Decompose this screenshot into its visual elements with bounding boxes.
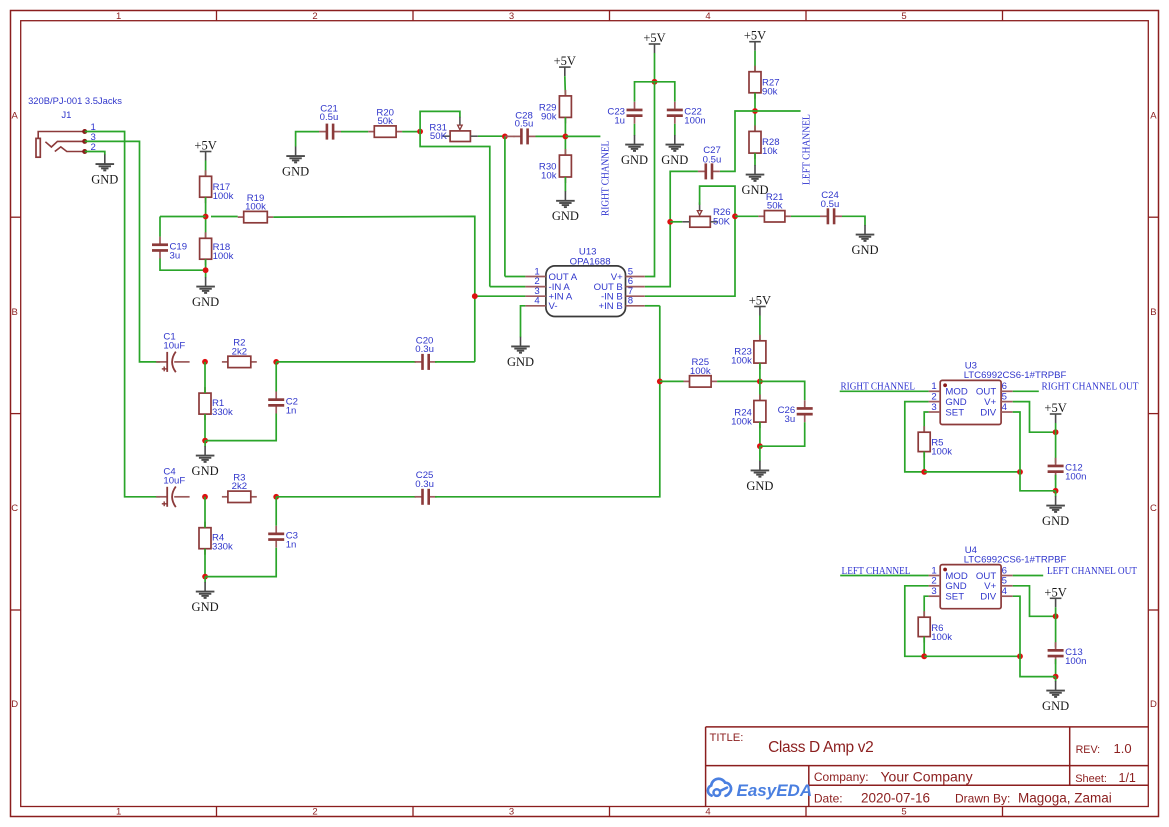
wire xyxy=(85,132,160,497)
wire xyxy=(654,53,656,82)
svg-text:1: 1 xyxy=(116,11,121,22)
junction xyxy=(563,134,569,140)
capacitor C27 xyxy=(698,145,721,180)
svg-text:330k: 330k xyxy=(212,407,233,418)
svg-text:GND: GND xyxy=(282,165,309,179)
svg-text:3: 3 xyxy=(509,807,514,818)
junction xyxy=(1053,488,1059,494)
wire xyxy=(536,135,566,137)
wire xyxy=(1055,491,1057,497)
svg-text:GND: GND xyxy=(91,173,118,187)
svg-text:100k: 100k xyxy=(213,191,234,202)
wire xyxy=(924,412,928,432)
capacitor C4 (polarized) xyxy=(156,467,189,508)
svg-text:RIGHT CHANNEL OUT: RIGHT CHANNEL OUT xyxy=(1042,382,1140,393)
EasyEDA logo xyxy=(708,779,812,800)
junction xyxy=(652,79,658,85)
IC U3 LTC6992CS6-1#TRPBF xyxy=(929,361,1067,425)
wire xyxy=(1055,607,1057,616)
wire xyxy=(205,161,207,177)
svg-text:+5V: +5V xyxy=(194,139,216,153)
wire xyxy=(490,286,526,288)
svg-text:320B/PJ-001 3.5Jacks: 320B/PJ-001 3.5Jacks xyxy=(28,95,122,106)
capacitor C25 xyxy=(415,470,437,505)
net label LEFT CHANNEL (vertical) xyxy=(802,114,813,185)
wire xyxy=(420,111,460,131)
wire xyxy=(435,361,475,363)
wire xyxy=(275,362,277,392)
op-amp U13 OPA1688 xyxy=(525,247,644,317)
svg-text:Class D Amp v2: Class D Amp v2 xyxy=(768,739,873,756)
resistor R28 xyxy=(749,125,780,159)
svg-text:100k: 100k xyxy=(931,447,952,458)
svg-text:10uF: 10uF xyxy=(163,476,185,487)
svg-text:2k2: 2k2 xyxy=(232,481,247,492)
svg-text:3u: 3u xyxy=(170,250,181,261)
svg-text:D: D xyxy=(1150,699,1157,710)
svg-text:10k: 10k xyxy=(762,146,778,157)
svg-text:V-: V- xyxy=(549,301,558,312)
capacitor C21 xyxy=(319,104,341,140)
svg-text:GND: GND xyxy=(851,243,878,257)
junction xyxy=(1053,674,1059,680)
svg-text:+5V: +5V xyxy=(744,29,766,43)
wire xyxy=(204,362,206,393)
ground (C13) xyxy=(1042,681,1069,713)
ground (C21) xyxy=(282,147,309,179)
wire xyxy=(759,316,761,341)
wire xyxy=(923,637,925,657)
wire xyxy=(564,76,567,96)
svg-text:D: D xyxy=(11,699,18,710)
svg-text:EasyEDA: EasyEDA xyxy=(737,781,813,800)
svg-text:3: 3 xyxy=(509,11,514,22)
resistor R23 xyxy=(731,335,766,369)
junction xyxy=(203,214,209,220)
svg-text:4: 4 xyxy=(1002,402,1008,413)
junction xyxy=(202,494,208,500)
svg-text:B: B xyxy=(12,307,18,318)
wire xyxy=(205,414,276,441)
wire xyxy=(924,655,1020,657)
wire xyxy=(924,471,1020,473)
net label RIGHT CHANNEL OUT xyxy=(1042,382,1140,393)
svg-text:SET: SET xyxy=(945,592,964,603)
wire xyxy=(204,497,206,528)
wire xyxy=(1013,575,1043,577)
junction xyxy=(202,438,208,444)
svg-text:0.5u: 0.5u xyxy=(320,112,339,123)
svg-text:GND: GND xyxy=(552,209,579,223)
wire xyxy=(1055,659,1057,676)
wire xyxy=(204,549,206,577)
resistor R30 xyxy=(539,149,572,183)
resistor R6 xyxy=(918,611,952,643)
wire xyxy=(645,82,655,277)
wire xyxy=(635,82,655,102)
wire xyxy=(1055,432,1057,463)
net label RIGHT CHANNEL (vertical) xyxy=(600,141,611,216)
svg-text:100n: 100n xyxy=(684,116,705,127)
wire xyxy=(670,221,682,223)
wire xyxy=(923,452,925,472)
svg-text:+5V: +5V xyxy=(643,31,665,45)
wire xyxy=(759,363,761,400)
svg-text:GND: GND xyxy=(746,479,773,493)
svg-text:4: 4 xyxy=(705,11,710,22)
svg-text:5: 5 xyxy=(1002,392,1007,403)
svg-text:A: A xyxy=(12,111,19,122)
junction xyxy=(732,213,738,219)
resistor R25 xyxy=(684,357,718,387)
resistor R2 xyxy=(222,338,257,368)
wire xyxy=(521,306,526,338)
svg-text:SET: SET xyxy=(945,407,964,418)
wire xyxy=(1020,472,1056,491)
+5V power flag (C23/C22) xyxy=(643,31,665,53)
wire xyxy=(85,141,160,362)
wire xyxy=(204,441,206,447)
wire xyxy=(276,361,416,363)
svg-text:0.3u: 0.3u xyxy=(415,344,434,355)
wire xyxy=(160,216,206,218)
resistor R27 xyxy=(749,66,780,99)
junction xyxy=(757,379,763,385)
svg-text:1n: 1n xyxy=(286,405,297,416)
svg-text:10k: 10k xyxy=(541,171,557,182)
wire xyxy=(420,132,490,287)
svg-text:100k: 100k xyxy=(213,251,234,262)
wire xyxy=(655,82,675,102)
svg-text:GND: GND xyxy=(1042,699,1069,713)
svg-text:10uF: 10uF xyxy=(163,341,185,352)
ground (J1 sleeve) xyxy=(91,155,118,187)
svg-text:1: 1 xyxy=(116,807,121,818)
ground (C23) xyxy=(621,135,648,167)
ground (R1/C2) xyxy=(192,446,219,478)
wire xyxy=(276,496,416,498)
ground (C24) xyxy=(851,225,878,257)
wire xyxy=(720,111,755,171)
ground (U13 V-) xyxy=(507,337,534,369)
connector J1 (320B/PJ-001 3.5mm jack) xyxy=(28,95,122,157)
svg-text:50k: 50k xyxy=(767,201,783,212)
svg-text:3u: 3u xyxy=(785,414,796,425)
wire xyxy=(760,422,805,446)
svg-text:2: 2 xyxy=(931,576,936,587)
svg-text:Drawn By:: Drawn By: xyxy=(955,792,1010,806)
wire xyxy=(717,380,760,382)
+5V power flag (R17) xyxy=(194,139,216,161)
svg-text:50K: 50K xyxy=(713,217,731,228)
wire xyxy=(1055,677,1057,682)
svg-text:LEFT CHANNEL: LEFT CHANNEL xyxy=(802,114,813,185)
ground (C12) xyxy=(1042,496,1069,528)
svg-text:1u: 1u xyxy=(614,116,625,127)
resistor R4 xyxy=(199,522,233,555)
junction xyxy=(1017,653,1023,659)
wire xyxy=(645,186,735,296)
resistor R3 xyxy=(222,473,257,503)
pin dot J1.2 xyxy=(82,149,87,154)
junction xyxy=(502,134,508,140)
junction xyxy=(657,379,663,385)
svg-text:TITLE:: TITLE: xyxy=(710,732,744,744)
svg-text:GND: GND xyxy=(192,600,219,614)
wire xyxy=(1013,596,1020,656)
junction xyxy=(1053,429,1059,435)
svg-text:100k: 100k xyxy=(245,202,266,213)
resistor R21 xyxy=(758,192,791,222)
svg-text:Sheet:: Sheet: xyxy=(1075,773,1107,785)
svg-text:90k: 90k xyxy=(762,86,778,97)
wire xyxy=(1013,390,1039,392)
svg-text:Magoga, Zamai: Magoga, Zamai xyxy=(1018,791,1112,806)
svg-text:90k: 90k xyxy=(541,112,557,123)
svg-text:+IN B: +IN B xyxy=(599,301,623,312)
resistor R1 xyxy=(199,387,233,420)
+5V power flag (R29) xyxy=(554,54,576,76)
IC U4 LTC6992CS6-1#TRPBF xyxy=(929,545,1067,609)
wire xyxy=(660,380,684,382)
capacitor C20 xyxy=(415,335,437,370)
wire xyxy=(759,422,761,446)
wire xyxy=(1013,412,1020,472)
svg-text:A: A xyxy=(1150,111,1157,122)
svg-text:+5V: +5V xyxy=(554,54,576,68)
svg-text:V+: V+ xyxy=(984,581,996,592)
wire xyxy=(475,295,526,297)
wire xyxy=(341,131,368,133)
wire xyxy=(204,577,206,583)
wire xyxy=(564,177,566,192)
svg-text:GND: GND xyxy=(507,355,534,369)
wire xyxy=(1055,616,1057,647)
svg-text:GND: GND xyxy=(661,153,688,167)
junction xyxy=(202,359,208,365)
wire xyxy=(754,51,756,72)
svg-text:DIV: DIV xyxy=(980,592,997,603)
svg-text:5: 5 xyxy=(901,11,906,22)
svg-text:5: 5 xyxy=(901,807,906,818)
ground (R30) xyxy=(552,191,579,223)
svg-text:0.5u: 0.5u xyxy=(515,119,534,130)
svg-text:100k: 100k xyxy=(731,355,752,366)
svg-text:GND: GND xyxy=(621,153,648,167)
svg-text:1n: 1n xyxy=(286,540,297,551)
+5V power flag (U4) xyxy=(1044,585,1066,607)
wire xyxy=(905,586,929,657)
wire xyxy=(296,132,319,147)
svg-text:2k2: 2k2 xyxy=(232,346,247,357)
wire xyxy=(735,215,758,217)
junction xyxy=(757,443,763,449)
junction xyxy=(273,494,279,500)
capacitor C22 xyxy=(667,102,706,127)
svg-text:4: 4 xyxy=(705,807,710,818)
net label LEFT CHANNEL xyxy=(842,566,911,577)
svg-text:8: 8 xyxy=(628,296,633,307)
svg-text:REV:: REV: xyxy=(1076,744,1101,756)
potentiometer R31 xyxy=(429,117,478,142)
node: bias divider to C19 top xyxy=(159,217,161,237)
wire xyxy=(211,216,238,218)
wire xyxy=(1055,475,1057,491)
svg-text:Company:: Company: xyxy=(814,770,869,784)
wire xyxy=(634,124,636,136)
wire xyxy=(205,259,207,277)
wire xyxy=(755,110,801,112)
junction xyxy=(752,108,758,114)
svg-text:GND: GND xyxy=(192,295,219,309)
wire xyxy=(565,135,600,137)
svg-text:J1: J1 xyxy=(61,110,71,121)
wire xyxy=(205,548,276,577)
capacitor C2 xyxy=(268,392,298,417)
svg-text:5: 5 xyxy=(1002,576,1007,587)
capacitor C19 xyxy=(152,237,187,262)
resistor R24 xyxy=(731,395,766,429)
resistor R5 xyxy=(918,426,952,457)
capacitor C13 xyxy=(1048,642,1087,667)
svg-text:2020-07-16: 2020-07-16 xyxy=(861,791,930,806)
wire xyxy=(273,216,475,362)
wire xyxy=(85,152,105,156)
svg-text:50K: 50K xyxy=(430,131,448,142)
title block xyxy=(706,727,1149,807)
svg-text:C: C xyxy=(1150,503,1157,514)
svg-text:0.5u: 0.5u xyxy=(821,199,840,210)
wire xyxy=(504,136,506,276)
pin wire C28.1 xyxy=(505,135,515,137)
capacitor C1 (polarized) xyxy=(156,332,189,373)
svg-text:+5V: +5V xyxy=(1044,585,1066,599)
svg-text:100k: 100k xyxy=(690,366,711,377)
pin dot J1.1 xyxy=(82,129,87,134)
junction xyxy=(273,359,279,365)
svg-text:3: 3 xyxy=(931,402,936,413)
resistor R29 xyxy=(539,90,572,124)
potentiometer R26 xyxy=(682,202,730,227)
wire xyxy=(204,414,206,441)
capacitor C24 xyxy=(820,190,842,225)
capacitor C26 xyxy=(778,400,813,425)
wire xyxy=(842,216,865,225)
wire xyxy=(478,135,505,137)
wire xyxy=(564,117,566,155)
svg-text:GND: GND xyxy=(192,464,219,478)
junction xyxy=(203,267,209,273)
junction xyxy=(921,469,927,475)
svg-text:2: 2 xyxy=(312,807,317,818)
ground (C22) xyxy=(661,135,688,167)
junction xyxy=(1053,613,1059,619)
svg-text:3: 3 xyxy=(931,586,936,597)
svg-text:LEFT CHANNEL OUT: LEFT CHANNEL OUT xyxy=(1047,566,1138,577)
svg-text:B: B xyxy=(1150,307,1156,318)
wire xyxy=(645,305,660,307)
svg-text:Date:: Date: xyxy=(814,792,843,806)
svg-text:2: 2 xyxy=(931,392,936,403)
svg-text:330k: 330k xyxy=(212,541,233,552)
resistor R17 xyxy=(200,170,234,203)
wire xyxy=(275,497,277,526)
svg-text:DIV: DIV xyxy=(980,407,997,418)
capacitor C23 xyxy=(607,102,642,127)
wire xyxy=(505,276,526,278)
svg-text:LEFT CHANNEL: LEFT CHANNEL xyxy=(842,566,911,577)
wire xyxy=(1013,586,1056,617)
svg-text:4: 4 xyxy=(534,296,540,307)
junction xyxy=(472,293,478,299)
svg-text:0.3u: 0.3u xyxy=(415,479,434,490)
svg-text:2: 2 xyxy=(312,11,317,22)
pin dot J1.3 xyxy=(82,139,87,144)
ground (R18) xyxy=(192,277,219,309)
+5V power flag (R23) xyxy=(749,294,771,316)
svg-text:+5V: +5V xyxy=(1044,401,1066,415)
net label LEFT CHANNEL OUT xyxy=(1047,566,1138,577)
wire xyxy=(760,381,805,400)
net label RIGHT CHANNEL xyxy=(841,382,916,393)
svg-text:0.5u: 0.5u xyxy=(703,154,722,165)
capacitor C12 xyxy=(1048,458,1087,483)
wire xyxy=(645,171,698,286)
svg-text:GND: GND xyxy=(741,183,768,197)
svg-text:1.0: 1.0 xyxy=(1114,741,1132,756)
svg-text:GND: GND xyxy=(945,581,966,592)
wire xyxy=(754,93,756,132)
wire xyxy=(435,306,660,497)
svg-text:1/1: 1/1 xyxy=(1119,771,1136,785)
wire xyxy=(924,596,928,617)
wire xyxy=(402,131,420,133)
junction xyxy=(202,574,208,580)
capacitor C3 xyxy=(268,526,298,551)
svg-text:LTC6992CS6-1#TRPBF: LTC6992CS6-1#TRPBF xyxy=(964,370,1067,381)
wire xyxy=(205,197,207,238)
wire xyxy=(905,402,929,472)
wire xyxy=(1055,423,1057,432)
wire xyxy=(1020,656,1056,676)
ground (R4/C3) xyxy=(192,582,219,614)
junction xyxy=(667,219,673,225)
ground (R24/C26) xyxy=(746,461,773,493)
resistor R20 xyxy=(368,107,402,137)
svg-text:RIGHT CHANNEL: RIGHT CHANNEL xyxy=(600,141,611,216)
wire xyxy=(754,153,756,165)
svg-text:50k: 50k xyxy=(377,116,393,127)
+5V power flag (U3) xyxy=(1044,401,1066,423)
resistor R19 xyxy=(238,193,274,223)
capacitor C28 xyxy=(514,110,536,144)
wire xyxy=(160,259,206,271)
svg-text:GND: GND xyxy=(1042,514,1069,528)
junction xyxy=(921,653,927,659)
wire xyxy=(840,575,928,577)
wire xyxy=(791,215,820,217)
junction xyxy=(417,129,423,135)
resistor R18 xyxy=(200,232,234,265)
svg-text:4: 4 xyxy=(1002,586,1008,597)
wire xyxy=(1013,402,1056,433)
svg-text:+5V: +5V xyxy=(749,294,771,308)
svg-text:Your Company: Your Company xyxy=(881,769,973,785)
svg-text:LTC6992CS6-1#TRPBF: LTC6992CS6-1#TRPBF xyxy=(964,554,1067,565)
svg-text:100n: 100n xyxy=(1065,472,1086,483)
junction xyxy=(1017,469,1023,475)
svg-text:100n: 100n xyxy=(1065,656,1086,667)
